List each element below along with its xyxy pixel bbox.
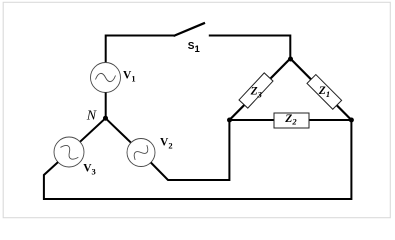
delta left leg wire (apex to left corner) [229,59,290,121]
wire node N to ac source V2 [106,118,132,143]
delta apex junction dot [288,57,293,62]
delta left corner junction dot [227,118,232,123]
svg-text:N: N [86,109,97,124]
delta right corner junction dot [349,118,354,123]
impedance Z2 box [274,113,309,128]
switch S1 blade (open) [174,23,206,36]
impedance Z1 box [307,75,342,110]
wire V2 to delta left corner [151,120,230,180]
node N junction dot [103,116,108,121]
ac source V1 [91,63,121,93]
wire V3 to bottom rail and up to delta right corner [44,120,352,199]
wire node N to ac source V3 [80,118,106,142]
wire from switch S1 right terminal to delta apex node [209,36,290,59]
ac source V2 [127,139,155,167]
delta right leg wire (apex to right corner) [290,59,351,121]
wire V1 bottom to node N [105,93,107,119]
ac source V3 [54,137,84,167]
impedance Z3 box [239,73,273,108]
delta bottom wire (left corner to right corner) [229,119,351,121]
wire from V1 top to switch S1 left terminal [106,36,174,64]
